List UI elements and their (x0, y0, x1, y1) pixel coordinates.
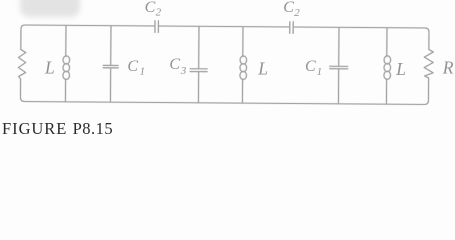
capacitor C1 (first) plates (103, 65, 118, 68)
inductor L2 branch wire top (242, 27, 244, 57)
svg-text:L: L (395, 59, 406, 79)
svg-text:C: C (305, 58, 316, 75)
capacitor C3 plates (190, 69, 207, 72)
inductor L1 coil loops (63, 56, 70, 64)
svg-text:2: 2 (156, 6, 162, 18)
inductor L2 coil loops (240, 56, 247, 64)
capacitor C1 (second) branch wire top (338, 27, 340, 66)
resistor (source, left edge, unlabeled) (18, 30, 26, 97)
wire: top rail segment 1 (21, 25, 155, 30)
svg-text:L: L (257, 58, 268, 78)
inductor L2 branch wire bottom (241, 79, 243, 103)
wire: top rail segment 2 (158, 25, 289, 28)
svg-text:R: R (442, 57, 454, 77)
svg-text:2: 2 (294, 7, 300, 19)
capacitor C3 branch wire bottom (197, 72, 199, 103)
capacitor C3 branch wire top (198, 26, 200, 68)
inductor L1 branch wire bottom (64, 79, 66, 102)
svg-text:1: 1 (140, 65, 146, 77)
inductor L1 branch wire top (65, 25, 67, 56)
capacitor C1 (first) branch wire top (110, 26, 112, 66)
svg-text:C: C (169, 56, 180, 73)
capacitor C1 (second) branch wire bottom (337, 69, 339, 104)
svg-text:C: C (127, 58, 138, 75)
resistor R (right edge) (424, 33, 433, 100)
svg-text:FIGURE: FIGURE (2, 119, 67, 138)
wire: top rail segment 3 (293, 27, 429, 32)
scan smudge top-left (20, 0, 80, 17)
capacitor C1 (first) branch wire bottom (109, 68, 111, 102)
svg-text:3: 3 (180, 65, 187, 77)
svg-text:1: 1 (317, 66, 323, 78)
capacitor C2 (second, series in top rail) plates (290, 22, 293, 34)
capacitor C1 (second) plates (330, 66, 348, 69)
inductor L3 branch wire bottom (385, 79, 387, 104)
inductor L3 branch wire top (386, 28, 388, 57)
svg-text:P8.15: P8.15 (73, 119, 114, 138)
wire: bottom rail (20, 97, 428, 104)
capacitor C2 (first, series in top rail) plates (155, 21, 158, 33)
inductor L3 coil loops (384, 56, 391, 64)
svg-text:C: C (283, 0, 294, 16)
svg-text:L: L (44, 58, 55, 78)
svg-text:C: C (145, 0, 156, 16)
